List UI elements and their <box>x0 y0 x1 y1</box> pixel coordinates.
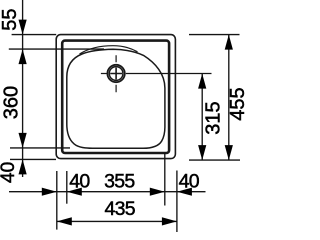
arrow 315 bottom (down) <box>198 145 206 160</box>
faucet centerline ticks <box>101 55 116 92</box>
faucet cross <box>110 68 122 80</box>
ext vertical bowl-left x=66.8 <box>66 171 68 204</box>
arrow 315 top (up) <box>198 74 206 89</box>
ext line bottom-right y=160.1 <box>189 159 240 161</box>
svg-text:40: 40 <box>179 171 200 193</box>
arrow 435 right <box>162 217 177 225</box>
arrow 355 right (right) <box>150 188 165 196</box>
ext line sink-bottom-left y=159.4 <box>10 158 56 160</box>
ext vertical sink-right x=176.9 <box>176 171 178 233</box>
svg-text:40: 40 <box>69 171 90 193</box>
svg-text:360: 360 <box>1 86 23 119</box>
sink inner rim (bold) <box>62 41 169 153</box>
arrow bottom 40-left outside (right) <box>42 188 57 196</box>
faucet ring outer <box>107 65 124 82</box>
ext line bowl-top y=49.1 <box>9 48 104 50</box>
arrow 360 bottom (down at 147.9) <box>19 133 27 148</box>
bowl outline <box>67 49 165 148</box>
right dim line 455 <box>228 35 230 161</box>
svg-text:315: 315 <box>203 101 225 134</box>
arrow 435 left <box>57 217 72 225</box>
faucet hole U <box>101 55 125 92</box>
svg-text:40: 40 <box>0 162 19 183</box>
ext line faucet y=73.6 <box>126 73 212 75</box>
ext vertical bowl-right x=164.8 <box>164 153 166 206</box>
ext line top-right y=34.6 <box>189 34 240 36</box>
svg-text:355: 355 <box>104 171 135 193</box>
sink outer rim rectangle <box>56 35 175 159</box>
bottom dim line row1 <box>9 191 206 193</box>
svg-text:455: 455 <box>227 87 247 120</box>
left dim line <box>22 0 24 177</box>
svg-text:55: 55 <box>0 8 21 30</box>
faucet ring inner <box>109 67 123 81</box>
arrow 40 left-bottom (up at 159.4) <box>19 159 27 174</box>
bowl back ledge line <box>80 46 138 54</box>
arrow 455 top (up) <box>225 35 233 50</box>
arrow 55/360 (up at 49.1) <box>19 49 27 64</box>
ext line bowl-bottom y=147.9 <box>10 147 70 149</box>
bottom dim line row2 <box>57 220 177 222</box>
sink plan-view dimensioned drawing <box>0 0 247 232</box>
svg-text:435: 435 <box>104 198 135 220</box>
ext vertical sink-left x=56.8 <box>56 171 58 230</box>
dimension lines <box>9 0 240 232</box>
right dim line 315 <box>201 74 203 161</box>
arrow 55 top (down) <box>19 20 27 35</box>
arrow 455 bottom (down) <box>225 145 233 160</box>
arrow bottom 40-right outside (left) <box>177 188 192 196</box>
ext line top-left y=34.6 <box>12 34 57 36</box>
arrow 355 left (left) <box>67 188 82 196</box>
arrowheads <box>19 20 233 226</box>
